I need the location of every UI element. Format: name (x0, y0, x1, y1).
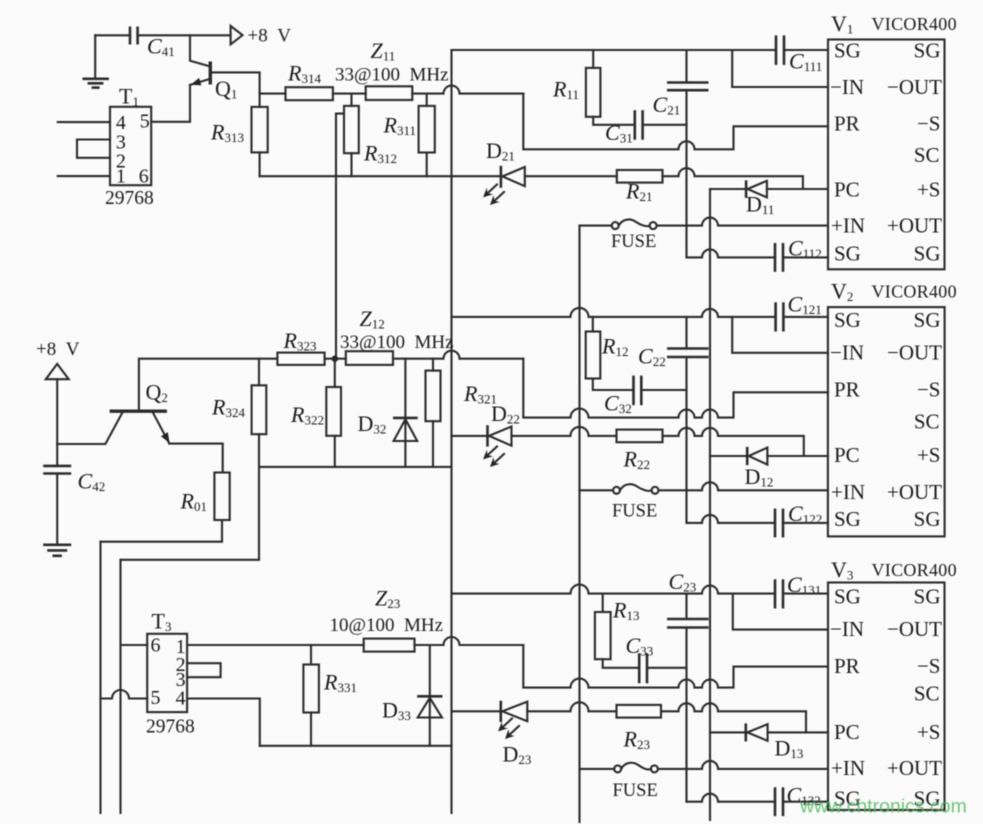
capacitor C132 (775, 783, 821, 817)
wire -IN jog V3 (733, 594, 828, 630)
capacitor C122 (775, 501, 822, 537)
capacitor C41 (130, 27, 175, 60)
fuse F2 (580, 484, 659, 521)
capacitor C33 (626, 633, 654, 683)
svg-text:10@100 MHz: 10@100 MHz (330, 615, 444, 636)
svg-text:C23: C23 (669, 569, 697, 595)
svg-text:29768: 29768 (105, 188, 154, 209)
svg-text:33@100 MHz: 33@100 MHz (335, 65, 449, 86)
wire fuse2 to V2 +IN (hops bus C) (659, 482, 829, 490)
wire R324 bottom through rail2 down to T3 feed (121, 434, 260, 560)
svg-text:5: 5 (140, 111, 150, 133)
wire T3 pin1 to Z23 (187, 644, 364, 646)
svg-text:V3: V3 (831, 557, 853, 583)
wire T3 pin5 (hops bus F) (101, 690, 148, 699)
wire Q2 base (57, 413, 122, 444)
junction dot (332, 356, 338, 362)
svg-text:6: 6 (151, 635, 161, 657)
svg-text:R312: R312 (363, 141, 397, 167)
resistor R21 (617, 170, 663, 204)
wire loop T3 pins 2-3 (187, 663, 221, 677)
vertical bus D (fuse bus) (578, 226, 580, 822)
wire ground rail circuit3 (260, 745, 452, 747)
resistor R324 (211, 385, 266, 434)
wire PR1 feed: corner down and across (hops C21 bus) (523, 94, 828, 150)
diode D13 (746, 723, 804, 761)
wire C122 to V2 SG bottom (783, 522, 828, 524)
wire R311 bottom to rail (426, 153, 428, 177)
fuse F1 (580, 219, 657, 252)
svg-text:−S: −S (917, 654, 941, 678)
wire R312 bottom to rail (350, 153, 352, 176)
svg-text:PR: PR (834, 654, 860, 678)
svg-text:−OUT: −OUT (887, 75, 942, 99)
svg-text:−IN: −IN (830, 617, 864, 641)
IC T3 (29768) (146, 609, 195, 738)
svg-text:V2: V2 (831, 279, 853, 305)
svg-text:5: 5 (151, 687, 161, 709)
wire R21 to PC corner (hops C21 bus) (663, 168, 803, 189)
svg-text:C121: C121 (788, 292, 822, 318)
capacitor C22 (on bus B) (638, 344, 709, 370)
vertical bus F (to bottom) (119, 560, 121, 813)
svg-text:PC: PC (834, 178, 860, 202)
wire bus A to D22 (452, 435, 488, 437)
wire C121 to V2 SG (783, 316, 828, 318)
wire C42 to ground (56, 474, 58, 545)
resistor R311 (383, 106, 435, 153)
svg-text:+OUT: +OUT (887, 214, 942, 238)
svg-text:+IN: +IN (831, 480, 865, 504)
wire down-feed to circuit2 node (336, 114, 344, 359)
vertical bus E (to bottom) (99, 542, 101, 813)
wire R322 bottom to rail2 (334, 436, 336, 467)
svg-text:−S: −S (917, 378, 941, 402)
wire Q1 base to R313/R314 node (212, 72, 260, 107)
wire D11 to V1 PC pin (767, 188, 828, 190)
wire bus A to D23 (452, 710, 501, 712)
svg-text:+S: +S (917, 720, 941, 744)
svg-text:V1: V1 (831, 11, 853, 37)
svg-text:PR: PR (834, 112, 860, 136)
resistor R314 (286, 61, 333, 101)
svg-text:SG: SG (914, 507, 941, 531)
svg-text:SG: SG (914, 585, 941, 609)
wire D13 to V3 PC pin (768, 731, 828, 733)
wire Q2 collector up to R323 rail (139, 359, 278, 412)
svg-text:D23: D23 (503, 742, 532, 768)
diode D33 (382, 696, 443, 723)
V3 top rail (hops buses D,C; junctions R13,busB) (452, 585, 776, 594)
resistor R23 (617, 705, 662, 752)
svg-text:SG: SG (834, 308, 861, 332)
wire R314 to Z11 (333, 93, 366, 95)
svg-text:www.chtronics.com: www.chtronics.com (799, 796, 967, 818)
wire R12 bottom to C32 (593, 379, 634, 391)
svg-text:+IN: +IN (831, 214, 865, 238)
resistor R321 (426, 371, 497, 422)
svg-text:+8 V: +8 V (36, 339, 80, 360)
resistor R01 (180, 473, 230, 521)
svg-text:R12: R12 (601, 334, 628, 360)
LED D21 (483, 138, 525, 205)
wire PR2 feed: corner down and across (hops buses D,B,C) (523, 359, 828, 418)
wire R11 bottom to C31 (593, 117, 635, 125)
wire R13 top stub (602, 594, 604, 612)
wire D23 to R23 (hops bus D) (527, 702, 616, 711)
wire R331 top stub (310, 645, 312, 665)
svg-text:R323: R323 (283, 328, 317, 354)
svg-text:C111: C111 (789, 49, 822, 75)
capacitor C32 (604, 376, 641, 416)
wire R313 bottom to rail (259, 152, 261, 176)
resistor R11 (552, 68, 600, 117)
capacitor C21 (on bus B) (653, 83, 709, 118)
svg-text:29768: 29768 (146, 717, 195, 738)
svg-text:D32: D32 (358, 411, 387, 437)
resistor R323 (277, 328, 324, 365)
svg-text:SG: SG (834, 507, 861, 531)
svg-text:SC: SC (914, 410, 940, 434)
svg-text:SG: SG (914, 39, 941, 63)
svg-text:T1: T1 (119, 84, 139, 110)
wire T3 pin4 down to rail3 (187, 699, 260, 746)
ground (middle left) (43, 545, 71, 556)
power +8V (middle left) (36, 339, 80, 379)
wire D32 top stub (404, 359, 406, 467)
svg-text:R324: R324 (211, 395, 245, 421)
svg-text:R311: R311 (383, 113, 416, 139)
top rail (452, 49, 777, 51)
wire R01 bottom to bus E corner (101, 520, 223, 542)
wire -IN jog V1 (732, 50, 828, 87)
svg-text:R314: R314 (287, 61, 321, 87)
wire PC3: bus C to D13 (710, 731, 746, 733)
svg-text:VICOR400: VICOR400 (872, 14, 957, 34)
wire C132 branch from bus B end (hops bus C) (687, 794, 776, 802)
module V1 VICOR400 (828, 11, 957, 269)
svg-text:C41: C41 (147, 34, 175, 60)
svg-text:+S: +S (917, 443, 941, 467)
svg-text:Q1: Q1 (215, 76, 237, 102)
vertical bus A (main left bus) (450, 50, 452, 813)
wire +8V down to C42 (56, 379, 58, 466)
wire C112 branch (hops bus C) (687, 249, 776, 257)
ground (top left) (83, 35, 109, 87)
wire PC2: bus C to D12 (710, 455, 747, 457)
wire R324 top stub (258, 359, 260, 386)
wire D21 to R21 (525, 175, 617, 177)
wire Q1 emitter down to T1 pin5 (151, 85, 190, 122)
wire C41 to +8V node (138, 34, 231, 36)
svg-text:+OUT: +OUT (887, 480, 942, 504)
svg-text:SG: SG (834, 39, 861, 63)
svg-text:+OUT: +OUT (887, 756, 942, 780)
wire D12 to V2 PC pin (767, 455, 828, 457)
wire C132 to V3 SG bottom (783, 801, 828, 803)
svg-text:−IN: −IN (830, 75, 864, 99)
wire R22 to PC corner (hops buses B,C) (663, 428, 804, 456)
svg-text:SC: SC (914, 682, 940, 706)
svg-text:−OUT: −OUT (887, 341, 942, 365)
svg-text:SG: SG (914, 242, 941, 266)
wire node to R314 (260, 93, 286, 95)
resistor R12 (586, 332, 629, 379)
module V3 VICOR400 (828, 557, 957, 810)
svg-text:6: 6 (139, 166, 149, 188)
svg-text:Z12: Z12 (360, 306, 385, 332)
wire R331 bottom to rail3 (310, 713, 312, 746)
V2 top rail (hops buses D,C; jog to -IN) (452, 308, 776, 317)
svg-text:PC: PC (834, 720, 860, 744)
svg-text:PR: PR (834, 378, 860, 402)
wire C33 to bus B (647, 667, 687, 669)
wire R23 to PC corner (hops buses B,C) (661, 703, 806, 732)
wire R11 top stub (592, 50, 594, 68)
inductor Z11 (335, 38, 449, 100)
svg-text:D33: D33 (382, 698, 411, 724)
svg-text:Z23: Z23 (375, 586, 400, 612)
wire Q2 emitter to R01 (169, 444, 222, 473)
svg-text:D21: D21 (486, 138, 515, 164)
vertical bus C (D1x bus) (709, 189, 711, 820)
svg-text:+S: +S (917, 178, 941, 202)
svg-text:D13: D13 (775, 736, 804, 762)
svg-text:R313: R313 (210, 120, 244, 146)
capacitor C31 (605, 110, 643, 145)
wire C112 to V1 SG bottom (783, 256, 828, 258)
wire ground rail circuit1 (260, 175, 501, 177)
resistor R313 (210, 107, 268, 152)
resistor R322 (290, 387, 341, 436)
svg-text:T3: T3 (152, 609, 172, 635)
svg-text:R01: R01 (180, 489, 207, 515)
wire stub R311 top (426, 94, 428, 106)
svg-text:+IN: +IN (831, 756, 865, 780)
diode D12 (745, 447, 774, 490)
capacitor C23 (on bus B) (667, 569, 709, 628)
svg-text:−OUT: −OUT (887, 617, 942, 641)
transistor Q1 (190, 62, 237, 102)
svg-text:−S: −S (917, 112, 941, 136)
wire T3 pin6 (121, 644, 148, 646)
wire C122 branch (hops bus C) (687, 515, 776, 523)
svg-text:R23: R23 (623, 727, 650, 753)
wire fuse3 to V3 +IN (hops bus C) (658, 761, 828, 769)
svg-text:C32: C32 (604, 391, 632, 417)
svg-text:R22: R22 (623, 447, 650, 473)
wire stub to R312 top (350, 94, 352, 106)
svg-text:R331: R331 (323, 670, 357, 696)
svg-text:C42: C42 (78, 469, 106, 495)
diode D32 (358, 411, 418, 441)
capacitor C131 (775, 572, 821, 609)
LED D23 (498, 701, 531, 767)
capacitor C111 (776, 35, 822, 74)
wire Z23 out (hops bus A) to corner (415, 637, 524, 645)
svg-text:R11: R11 (552, 77, 579, 103)
wire PC1: bus to D11 (710, 188, 746, 190)
svg-text:FUSE: FUSE (612, 502, 657, 522)
transistor Q2 (110, 380, 170, 444)
svg-text:D11: D11 (746, 192, 774, 218)
wire R321 top stub (432, 359, 434, 371)
wire ground to C41 (95, 34, 130, 36)
inductor Z12 (340, 306, 454, 365)
power +8V (top) (231, 26, 292, 47)
svg-text:4: 4 (176, 688, 186, 710)
capacitor C121 (776, 292, 822, 332)
svg-text:C21: C21 (653, 92, 681, 118)
wire C31 to bus B (643, 124, 687, 126)
wire R13 bottom to C33 (603, 659, 640, 668)
wire loop T1 pins 3-2 (77, 140, 110, 158)
svg-text:1: 1 (116, 166, 126, 188)
wire Z12 out (hops bus A) to corner (393, 351, 523, 359)
svg-text:SG: SG (834, 242, 861, 266)
wire Z11 to bus hop to corner (412, 86, 523, 94)
resistor R312 (344, 106, 397, 166)
svg-text:VICOR400: VICOR400 (872, 282, 957, 302)
resistor R22 (617, 430, 663, 472)
wire PR3 feed: corner down and across (hops buses D,B,C) (523, 645, 828, 688)
svg-text:FUSE: FUSE (613, 781, 658, 801)
capacitor C112 (775, 236, 822, 272)
svg-text:R13: R13 (612, 598, 639, 624)
diode D11 (746, 180, 774, 217)
vertical bus B (C2x bus) (685, 50, 687, 802)
svg-text:Q2: Q2 (146, 380, 168, 406)
LED D22 (483, 401, 520, 467)
wire R12 top stub (592, 317, 594, 332)
svg-text:−IN: −IN (830, 341, 864, 365)
capacitor C42 (43, 466, 105, 494)
wire node to Q1 collector (190, 35, 210, 66)
wire -IN jog V2 (732, 317, 828, 353)
wire R323 to Z12 (325, 358, 346, 360)
wire D33 top stub (429, 645, 431, 746)
svg-text:FUSE: FUSE (611, 232, 656, 252)
inductor Z23 (330, 586, 444, 652)
svg-text:C33: C33 (626, 633, 654, 659)
svg-text:+8 V: +8 V (248, 26, 292, 47)
module V2 VICOR400 (828, 279, 957, 537)
svg-text:D12: D12 (745, 464, 774, 490)
svg-text:Z11: Z11 (371, 38, 396, 64)
svg-text:VICOR400: VICOR400 (872, 560, 957, 580)
wire R322 top stub (334, 359, 336, 387)
fuse F3 (580, 763, 658, 801)
wire C111 to V1 SG (784, 49, 828, 51)
resistor R331 (303, 665, 357, 713)
svg-text:C22: C22 (638, 344, 666, 370)
resistor R13 (595, 598, 640, 660)
svg-text:D22: D22 (491, 401, 520, 427)
svg-text:SC: SC (914, 143, 940, 167)
IC T1 (29768) (105, 84, 154, 210)
wire fuse to V1 +IN (hops bus C) (657, 218, 828, 226)
svg-text:R322: R322 (290, 402, 324, 428)
svg-text:SG: SG (834, 585, 861, 609)
wire into T1 pin4 (58, 121, 110, 123)
svg-text:33@100 MHz: 33@100 MHz (340, 332, 454, 353)
wire C32 to bus B (641, 389, 686, 391)
wire into T1 pin1 (58, 175, 110, 177)
wire ground rail circuit2 (259, 466, 452, 468)
wire C131 to V3 SG (783, 593, 828, 595)
wire R321 bottom to rail2 (432, 421, 434, 467)
svg-text:PC: PC (834, 443, 860, 467)
wire D22 to R22 (hops bus D) (512, 427, 617, 436)
svg-text:SG: SG (914, 308, 941, 332)
